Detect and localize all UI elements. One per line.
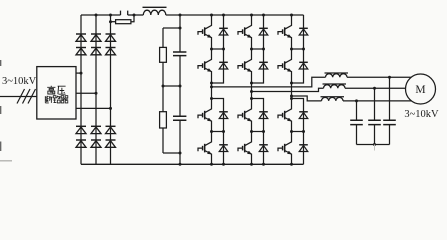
filter capacitor C3	[383, 120, 396, 124]
breaker box label line2: 断路器	[45, 96, 52, 103]
phase 2 wire to motor	[345, 87, 406, 89]
rectifier leg 1 wire	[80, 15, 82, 164]
node phase1 main y98.5	[210, 97, 213, 100]
phase 1 upper branch wire	[212, 15, 224, 83]
rectifier diode leg2 lower row2	[91, 139, 101, 141]
rectifier diode leg2 lower row1	[91, 125, 101, 127]
node phase3 top bus main	[290, 14, 293, 17]
input supply line 3~10kV	[0, 96, 37, 98]
IGBT Q22	[245, 49, 252, 63]
node phase2 top bus main	[250, 14, 253, 17]
node phase2 bottom bus branch	[262, 163, 265, 166]
rectifier diode leg3 lower row2	[106, 139, 116, 141]
scan artifact marks left edge	[0, 60, 2, 151]
phase 3 lower branch wire	[292, 99, 304, 165]
IGBT Q11	[205, 15, 212, 29]
node resistor right to bus	[133, 14, 136, 17]
phase 2 upper branch wire	[252, 15, 264, 83]
node phase2 branch y131	[262, 130, 265, 133]
node phase1 main y131.5	[210, 130, 213, 133]
freewheel diode D13	[219, 111, 228, 113]
phase 1 lower mid tie wire	[212, 131, 224, 133]
top DC bus right segment	[166, 14, 304, 16]
node phase3 main y131.5	[290, 130, 293, 133]
node cap rail bottom bus	[179, 163, 182, 166]
precharge resistor right lead	[131, 15, 134, 22]
DC capacitor rail wire	[179, 15, 181, 164]
breaker box label line1: 高压	[47, 86, 55, 94]
node phase2 main y83	[250, 82, 253, 85]
node phase1 bottom bus branch	[222, 163, 225, 166]
node phase1 top bus main	[210, 14, 213, 17]
tie wire bottom of divider	[163, 152, 180, 154]
phase 1 wire to motor	[347, 76, 411, 78]
rectifier diode leg1 lower row2	[76, 139, 86, 141]
freewheel diode D34	[299, 144, 308, 146]
svg-text:3~10kV: 3~10kV	[2, 76, 37, 87]
node phase2 output tap	[250, 90, 253, 93]
node phase3 branch y49	[302, 48, 305, 51]
node cap bar middle	[373, 143, 376, 146]
faint stub below cap bar	[374, 145, 376, 151]
IGBT Q31	[285, 15, 292, 29]
rectifier diode leg3 upper row2	[106, 47, 116, 49]
node phase1 top bus branch	[222, 14, 225, 17]
IGBT Q24	[245, 132, 252, 146]
phase 3 lower mid tie wire	[292, 131, 304, 133]
rectifier diode leg3 upper row1	[106, 33, 116, 35]
node bus-leg3 contact branch	[109, 14, 112, 17]
output filter inductor L2	[324, 85, 346, 89]
breaker output wire to leg1	[76, 72, 81, 74]
IGBT Q21	[245, 15, 252, 29]
rectifier diode leg1 lower row1	[76, 125, 86, 127]
node leg3 input tap	[109, 107, 112, 110]
node bus-leg2	[95, 14, 98, 17]
node phase3 bottom bus main	[290, 163, 293, 166]
node resistor tap on leg3	[109, 20, 112, 23]
top DC bus left segment	[81, 14, 121, 16]
IGBT Q34	[285, 132, 292, 146]
node midpoint right	[179, 85, 182, 88]
node phase1 branch y49	[222, 48, 225, 51]
phase 1 upper mid tie wire	[212, 48, 224, 50]
IGBT Q23	[245, 99, 252, 113]
breaker output wire to leg3	[76, 107, 111, 109]
node phase2 bottom bus main	[250, 163, 253, 166]
filter cap drop wire phase1	[389, 77, 391, 120]
rectifier diode leg2 upper row1	[91, 33, 101, 35]
rectifier diode leg3 lower row1	[106, 125, 116, 127]
tie wire midpoint of divider	[163, 85, 180, 87]
output filter inductor L1	[326, 74, 348, 78]
DC link choke core	[143, 6, 167, 8]
phase 1 lower branch wire	[212, 99, 224, 165]
freewheel diode D23	[259, 111, 268, 113]
node phase1 main y83	[210, 82, 213, 85]
output inductor L3 core	[321, 96, 345, 98]
balancing resistor rail wire	[162, 28, 164, 153]
IGBT Q32	[285, 49, 292, 63]
top DC bus middle segment	[128, 14, 144, 16]
freewheel diode D11	[219, 27, 228, 29]
IGBT Q13	[205, 99, 212, 113]
node phase2 branch y49	[262, 48, 265, 51]
IGBT Q12	[205, 49, 212, 63]
node phase3 main y98.5	[290, 97, 293, 100]
freewheel diode D24	[259, 144, 268, 146]
node phase1 branch y131	[222, 130, 225, 133]
output inductor L2 core	[323, 83, 347, 85]
svg-text:3~10kV: 3~10kV	[404, 109, 439, 120]
phase 2 lower mid tie wire	[252, 131, 264, 133]
freewheel diode D31	[299, 27, 308, 29]
freewheel diode D22	[259, 61, 268, 63]
node midpoint left	[162, 85, 165, 88]
filter cap drop wire phase3	[356, 101, 358, 120]
rectifier diode leg1 upper row1	[76, 33, 86, 35]
phase 2 upper mid tie wire	[252, 48, 264, 50]
filter capacitor C5	[350, 120, 363, 124]
node phase2 main y98.5	[250, 97, 253, 100]
motor M	[406, 74, 436, 104]
node drop phase3	[355, 99, 358, 102]
node drop phase1	[388, 76, 391, 79]
rectifier diode leg2 upper row2	[91, 47, 101, 49]
phase 3 upper mid tie wire	[292, 48, 304, 50]
phase 3 output wire	[292, 96, 322, 101]
filter cap lower leads	[357, 125, 390, 145]
node phase1 main y49	[210, 48, 213, 51]
rectifier leg 3 wire	[110, 15, 112, 164]
freewheel diode D21	[259, 27, 268, 29]
node leg1 input tap	[80, 72, 83, 75]
precharge resistor	[116, 20, 131, 24]
breaker output wire to leg2	[76, 92, 96, 94]
node bottom tie	[179, 152, 182, 155]
bypass contact (open switch)	[121, 11, 128, 15]
freewheel diode D14	[219, 144, 228, 146]
node cap rail tie top	[179, 27, 182, 30]
balancing resistor R2	[160, 112, 167, 128]
node phase3 output tap	[290, 95, 293, 98]
output filter inductor L3	[322, 97, 344, 101]
phase 3 main wire mid	[291, 83, 293, 99]
IGBT Q14	[205, 132, 212, 146]
rectifier diode leg1 upper row2	[76, 47, 86, 49]
IGBT Q33	[285, 99, 292, 113]
balancing resistor R1	[160, 47, 167, 62]
scan artifact bottom left	[0, 160, 12, 162]
phase 2 lower branch wire	[252, 99, 264, 165]
filter cap common bar wire	[357, 144, 390, 146]
phase 3 upper branch wire	[292, 15, 304, 83]
node phase2 top bus branch	[262, 14, 265, 17]
high-voltage circuit breaker box	[37, 67, 76, 119]
phase 2 output wire	[252, 88, 324, 91]
freewheel diode D12	[219, 61, 228, 63]
node phase2 main y49	[250, 48, 253, 51]
node phase3 branch y131	[302, 130, 305, 133]
DC link capacitor C1	[173, 52, 186, 56]
filter capacitor C4	[368, 120, 381, 124]
precharge resistor left lead	[111, 21, 116, 23]
node phase3 main y49	[290, 48, 293, 51]
svg-text:M: M	[415, 84, 425, 96]
node phase2 main y131.5	[250, 130, 253, 133]
phase 3 wire to motor	[343, 100, 412, 102]
output inductor L1 core	[325, 72, 349, 74]
rectifier leg 2 wire	[95, 15, 97, 164]
node leg2 input tap	[95, 92, 98, 95]
DC link choke L0	[143, 10, 166, 15]
node phase1 bottom bus main	[210, 163, 213, 166]
three-phase slash marks	[17, 89, 36, 104]
node cap rail top bus	[179, 14, 182, 17]
node drop phase2	[373, 87, 376, 90]
phase 1 main wire mid	[211, 83, 213, 99]
node phase3 main y83	[290, 82, 293, 85]
tie wire top of divider	[163, 27, 180, 29]
filter cap drop wire phase2	[374, 88, 376, 120]
freewheel diode D32	[299, 61, 308, 63]
node phase1 output tap	[210, 85, 213, 88]
bottom DC bus	[81, 163, 304, 165]
phase 1 output wire	[212, 77, 326, 87]
freewheel diode D33	[299, 111, 308, 113]
DC link capacitor C2	[173, 116, 186, 120]
phase 2 main wire mid	[251, 83, 253, 99]
